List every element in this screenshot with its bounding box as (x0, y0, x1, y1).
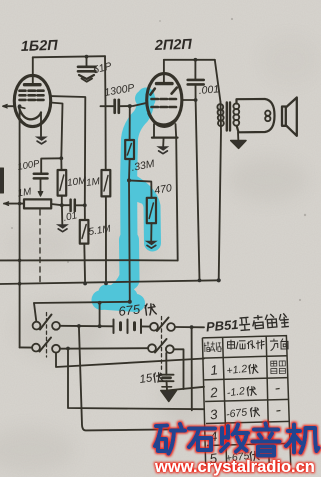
bus A+ (filament supply) (0, 259, 178, 261)
junction dots on C- bus (83, 282, 87, 286)
svg-text:PB51: PB51 (205, 317, 239, 335)
watermark URL www.crystalradio.cn (154, 458, 315, 476)
switch S1b contacts (32, 344, 40, 352)
tube V1 1B2P envelope (14, 75, 50, 126)
tube V1 grid dashes (20, 91, 44, 100)
transformer T1 secondary loops (233, 103, 239, 125)
header 插头编号 (204, 341, 222, 352)
wire: 10M top to 100P (41, 158, 61, 173)
tube V2 beam plates (150, 88, 176, 95)
char shi (189, 429, 215, 451)
wire: V1 grid to 5.1M chain (50, 96, 85, 205)
speaker voice-coil loop frame (237, 99, 275, 132)
char yin (253, 424, 280, 456)
svg-text:1M: 1M (17, 186, 33, 199)
voice coil loops (265, 111, 270, 116)
resistor R .33M (129, 106, 131, 140)
switch S2a lever (157, 318, 169, 332)
wire: screen stub into V2 (182, 99, 196, 101)
svg-text:1M: 1M (85, 176, 101, 189)
100P to pot wiper arrow (40, 178, 42, 193)
battery B1 67.5V plates (114, 320, 142, 334)
resistor R 10M (60, 158, 62, 170)
junction dot .001 tap (194, 58, 198, 62)
cyan highlighter path overlay (signal trace) (101, 96, 153, 303)
switch S2b contacts (148, 344, 156, 352)
wire: down from S2a node to bottom row (191, 327, 193, 410)
tube V1 plate lead (32, 57, 34, 84)
potentiometer R 1M volume (4, 203, 24, 205)
wire: S1a to battery B1 (60, 325, 113, 328)
table PB51 (202, 312, 291, 466)
junction dot V2 screen (194, 98, 198, 102)
char shou (221, 425, 248, 452)
ground under 470 (145, 241, 158, 248)
battery B2 15V plates (vertical stack) (160, 375, 174, 382)
bus3 B- (34, 302, 130, 303)
wire: pot node to .01 (62, 204, 85, 206)
tube V2 filament (149, 114, 180, 125)
svg-text:1Б2П: 1Б2П (21, 38, 59, 55)
junction dot 51P tap (85, 55, 89, 59)
capacitor C .01 plates (71, 200, 75, 211)
wire: 1300P to V2 grid (120, 103, 148, 106)
svg-text:.001: .001 (198, 83, 219, 97)
wire: plate run corner down to coupling node (104, 56, 107, 106)
junction dots on left bus (18, 104, 22, 108)
svg-text:-1.2: -1.2 (226, 385, 246, 399)
wire: transformer primary down to B+ bus (219, 102, 221, 280)
ground under V2 (156, 146, 169, 153)
switch S2 gang dashed link (161, 317, 163, 373)
junction dot x79 (77, 324, 81, 328)
capacitor C .001 plates (188, 80, 204, 85)
svg-text:+1.2: +1.2 (226, 363, 248, 377)
title CJK 型电源插 (238, 312, 289, 330)
tube V1 cathode lead to ground (40, 113, 42, 137)
tube V2 grid dashes (152, 99, 177, 107)
bus C- (0, 280, 219, 284)
char kuang (155, 426, 167, 452)
antenna input arrow left (3, 105, 14, 107)
switch S1a contacts (33, 322, 41, 330)
tube V1 plate (25, 83, 41, 86)
table column lines (223, 336, 270, 466)
switch S2a contacts (150, 323, 158, 331)
ground under transformer (231, 141, 246, 149)
svg-text:15: 15 (139, 372, 154, 386)
capacitor 51P lead (86, 57, 88, 66)
ground stub below 10M (61, 205, 63, 224)
wire: x79 drop to lowest row (79, 326, 204, 430)
capacitor C 100P plates (34, 174, 48, 179)
junction dot bottom row tap (66, 347, 70, 351)
switch S2b lever (155, 339, 167, 353)
wire: V2 plate top run (164, 59, 215, 61)
wire: .001 down to C- bus (196, 84, 200, 280)
tube V2 filament bar (152, 137, 178, 139)
junction dot 10M top (59, 156, 63, 160)
ground under V1 (35, 137, 48, 144)
wire: V1 plate top run (33, 56, 105, 57)
resistor R 5.1M (84, 205, 86, 220)
ground under 51P (79, 75, 94, 79)
wire + arrow below B2 (166, 381, 169, 390)
wire secondary to ground (237, 132, 239, 139)
switch S1a lever (40, 315, 52, 330)
junction dot pot right (60, 203, 64, 207)
svg-text:-675: -675 (225, 406, 247, 420)
wire: left bus to S1b (20, 346, 32, 348)
wire: bus3 corner to switch A (34, 303, 36, 321)
junction dot .33M bottom (127, 178, 131, 182)
wire: S2a to table (175, 326, 204, 328)
tube V2 cathode stem to ground (162, 138, 164, 146)
junction dot .01 right (83, 203, 87, 207)
pot dashed gang line (39, 210, 41, 282)
switch gang dashed link (46, 313, 48, 358)
tube V2 plate (157, 82, 173, 85)
tube V2 filament leads (154, 124, 176, 138)
wire: S2b drop to battery B2 (165, 353, 167, 375)
tube V2 2P2P envelope (147, 74, 182, 127)
resistor R 470 (147, 198, 156, 223)
ink layer (0, 37, 297, 431)
header 方向 (270, 338, 288, 350)
watermark CJK 矿石收音机 (155, 424, 319, 456)
wire: bottom row tap down and to table (68, 349, 204, 410)
wire: S1b to S2b (60, 347, 148, 350)
wire: S2b right corner down (174, 349, 184, 389)
wire: bias node down to bus3 (128, 180, 131, 301)
edge component stub (cut off) (0, 168, 4, 193)
capacitor C .001 lead (194, 60, 196, 79)
svg-text:675: 675 (118, 301, 142, 319)
header 电源极性 (227, 339, 264, 350)
wire: arrow row to table (167, 387, 205, 391)
tube V2 plate lead (163, 60, 165, 84)
resistor R 1M (plate node down) (105, 106, 107, 170)
svg-text:2П2П: 2П2П (154, 37, 193, 54)
wire 470 to ground (150, 223, 152, 240)
tube V1 filament (19, 107, 41, 120)
wire: V2 filament right down to A+ bus (176, 138, 178, 261)
left bus vertical (19, 106, 21, 347)
svg-text:www.crystalradio.cn: www.crystalradio.cn (154, 458, 315, 476)
junction dot .33M tap (128, 104, 132, 108)
wire: plate corner down to transformer (215, 60, 221, 102)
wire: node to 470 (129, 180, 152, 197)
wire: battery B1 to S2a (141, 325, 150, 327)
capacitor C 1300P plates (115, 100, 119, 113)
switch S1b lever (40, 338, 52, 352)
wire: S1b-D down and right to table (56, 353, 204, 367)
capacitor 51P plates (78, 67, 96, 72)
char ji (286, 425, 319, 453)
transformer T1 primary loops (217, 104, 223, 126)
wire: bus3 drop to battery row (99, 303, 101, 326)
table outer frame (202, 336, 290, 467)
wire: node to 1300P (101, 105, 115, 107)
junction dot x99 (98, 324, 102, 328)
transformer T1 core (227, 103, 230, 131)
speaker LS1 (282, 107, 286, 126)
wire: V1 pin to 10M (50, 103, 62, 159)
table row lines (203, 356, 287, 358)
